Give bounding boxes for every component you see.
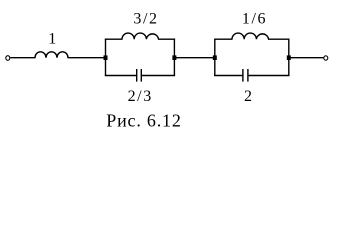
wire tank2 left vertical xyxy=(214,39,216,75)
wire tank1 left vertical xyxy=(105,39,107,75)
wire tank1 top-left segment xyxy=(105,38,123,40)
terminal left xyxy=(6,56,10,61)
wire from L1 to tank1 xyxy=(68,57,106,59)
svg-text:1: 1 xyxy=(48,31,56,48)
wire tank1 right vertical xyxy=(173,39,175,75)
inductor L3 value 1/6 (tank2 top edge) xyxy=(232,33,269,39)
capacitor C1 value 2/3 (tank1 bottom edge) xyxy=(105,75,137,77)
node junction dot B xyxy=(172,55,176,60)
inductor L2 value 3/2 (tank1 top edge) xyxy=(122,33,159,39)
wire tank2 right vertical xyxy=(288,39,290,75)
inductor L1 value 1 xyxy=(35,52,68,58)
svg-text:2/3: 2/3 xyxy=(128,88,153,105)
svg-text:2: 2 xyxy=(244,88,252,105)
svg-text:1/6: 1/6 xyxy=(242,11,267,28)
wire from tank2 to right terminal xyxy=(289,57,324,59)
terminal right xyxy=(324,56,328,60)
wire from left terminal to L1 xyxy=(10,57,35,59)
svg-text:3/2: 3/2 xyxy=(133,11,158,28)
wire tank1 top-right segment xyxy=(158,38,175,40)
wire between tanks xyxy=(174,57,214,59)
svg-text:Рис. 6.12: Рис. 6.12 xyxy=(106,110,181,130)
node junction dot A xyxy=(104,55,108,60)
wire tank2 top-right segment xyxy=(268,38,290,40)
node junction dot D xyxy=(287,55,291,60)
wire tank2 top-left segment xyxy=(214,38,232,40)
node junction dot C xyxy=(213,55,217,60)
capacitor C2 value 2 (tank2 bottom edge) xyxy=(214,75,243,77)
